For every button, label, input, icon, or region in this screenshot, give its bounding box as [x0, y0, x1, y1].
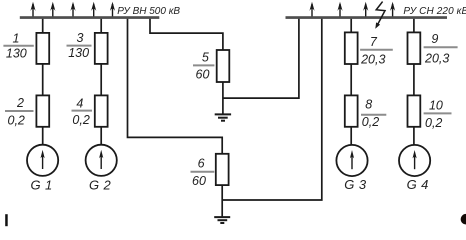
transformer T9	[408, 32, 421, 64]
svg-text:5: 5	[202, 51, 209, 65]
svg-text:130: 130	[68, 46, 89, 60]
wire T2 to G1	[42, 127, 44, 145]
generator G1	[27, 145, 58, 176]
load arrow 5 (left busbar)	[110, 2, 115, 17]
ground under T6	[214, 217, 230, 223]
label 9/20,3	[424, 32, 458, 66]
wire busbar to T5 (drop + horizontal)	[150, 19, 223, 51]
generator G3	[336, 145, 367, 176]
transformer T5	[217, 50, 230, 82]
wire T3 to T4	[100, 64, 102, 96]
label 5/60	[193, 51, 214, 82]
load arrow 8 (right busbar)	[363, 2, 368, 17]
wire busbar to T9	[413, 19, 415, 33]
svg-text:60: 60	[192, 174, 206, 188]
svg-text:0,2: 0,2	[362, 115, 379, 129]
lightning short-circuit arrow	[375, 2, 385, 29]
load arrow 3 (left busbar)	[70, 2, 75, 17]
svg-text:8: 8	[365, 98, 372, 112]
label 7/20,3	[360, 35, 393, 67]
svg-text:130: 130	[6, 47, 27, 61]
generator G2	[86, 145, 117, 176]
wire busbar to T3	[100, 19, 102, 33]
svg-text:6: 6	[198, 157, 205, 171]
svg-text:0,2: 0,2	[425, 116, 442, 130]
svg-text:G 3: G 3	[344, 177, 367, 192]
label 8/0,2	[361, 98, 386, 130]
wire T7 to T8	[350, 64, 352, 96]
svg-text:0,2: 0,2	[72, 113, 89, 127]
generator G4	[399, 145, 430, 176]
wire T8 to G3	[350, 127, 352, 145]
wire busbar to T6 (long drop + horizontal)	[128, 19, 223, 154]
svg-text:10: 10	[429, 99, 443, 113]
wire T5 bottom to ground and to right busbar	[222, 82, 224, 114]
busbar РУ СН 220 кВ	[286, 16, 448, 19]
wire busbar to T7	[350, 19, 352, 33]
load arrow 1 (left busbar)	[30, 2, 35, 17]
busbar РУ ВН 500 кВ	[20, 16, 160, 19]
load arrow 6 (right busbar)	[309, 2, 314, 17]
transformer T6	[216, 154, 229, 185]
transformer T2	[36, 95, 49, 126]
svg-text:РУ СН 220 кВ: РУ СН 220 кВ	[403, 6, 466, 17]
wire T4 to G2	[100, 127, 102, 145]
wire T9 to T10	[413, 64, 415, 96]
load arrow 7 (right busbar)	[337, 2, 342, 17]
transformer T1	[36, 33, 49, 64]
svg-text:0,2: 0,2	[8, 113, 25, 127]
svg-text:G 2: G 2	[89, 177, 112, 192]
svg-text:3: 3	[77, 31, 84, 45]
svg-text:G 4: G 4	[407, 177, 429, 192]
transformer T4	[95, 95, 108, 126]
load arrow 9 (right busbar)	[390, 2, 395, 17]
label 6/60	[191, 157, 215, 188]
wire T6 neutral to right busbar	[222, 19, 322, 200]
label 10/0,2	[424, 99, 452, 130]
bullet dot bottom right	[461, 214, 466, 225]
transformer T7	[345, 32, 358, 64]
svg-text:G 1: G 1	[31, 177, 53, 192]
wire T10 to G4	[413, 127, 415, 145]
ground under T5	[215, 114, 231, 120]
svg-text:РУ ВН 500 кВ: РУ ВН 500 кВ	[117, 6, 180, 17]
label 4/0,2	[72, 96, 93, 127]
wire T6 bottom to ground	[221, 185, 223, 217]
label 3/130	[67, 31, 92, 60]
load arrow 2 (left busbar)	[50, 2, 55, 17]
label 1/130	[3, 31, 33, 60]
svg-text:60: 60	[196, 67, 210, 81]
transformer T3	[95, 33, 108, 64]
transformer T10	[408, 95, 421, 126]
label 2/0,2	[5, 96, 34, 127]
svg-text:20,3: 20,3	[360, 53, 385, 67]
wire T5 neutral to right busbar	[223, 19, 299, 98]
svg-text:4: 4	[76, 96, 83, 110]
svg-text:7: 7	[370, 35, 378, 49]
wire T1 to T2	[42, 64, 44, 96]
load arrow 4 (left busbar)	[91, 2, 96, 17]
svg-text:2: 2	[16, 96, 24, 110]
svg-text:9: 9	[431, 32, 438, 46]
svg-text:1: 1	[13, 31, 20, 45]
cursor bar bottom left	[5, 214, 8, 226]
wire busbar to T1	[42, 19, 44, 33]
transformer T8	[345, 95, 358, 126]
svg-text:20,3: 20,3	[424, 52, 449, 66]
